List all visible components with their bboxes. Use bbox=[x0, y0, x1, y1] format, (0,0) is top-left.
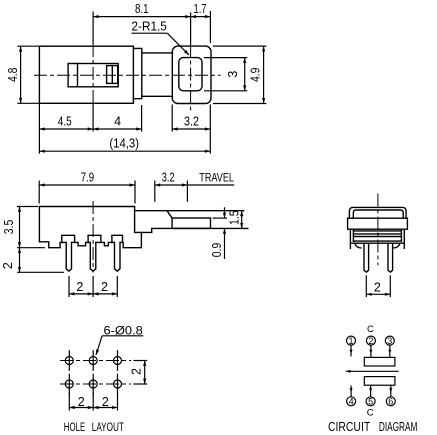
svg-text:TRAVEL: TRAVEL bbox=[199, 170, 234, 184]
stub pin 6 bbox=[389, 385, 392, 397]
svg-text:DIAGRAM: DIAGRAM bbox=[379, 420, 418, 434]
hole A3 bbox=[114, 350, 122, 371]
svg-text:1: 1 bbox=[348, 336, 353, 346]
flange bbox=[133, 48, 141, 98]
dimension 4.9 bbox=[213, 46, 266, 103]
pin 2 bbox=[91, 241, 96, 268]
svg-text:1.5: 1.5 bbox=[228, 210, 242, 225]
svg-text:4.8: 4.8 bbox=[6, 68, 20, 83]
svg-text:(14,3): (14,3) bbox=[109, 136, 139, 150]
hole B2 bbox=[89, 374, 97, 395]
terminal 4 bbox=[347, 397, 356, 407]
dimension 3.5 bbox=[2, 207, 45, 248]
body sides inner bbox=[352, 229, 354, 241]
lever arm diagonal bbox=[167, 211, 172, 218]
dimension 2 side bbox=[366, 275, 390, 297]
knob inner rect bbox=[107, 66, 118, 84]
hole B1 bbox=[65, 374, 73, 395]
cap outer bbox=[349, 207, 406, 218]
svg-text:2: 2 bbox=[102, 395, 109, 409]
lever arm top line bbox=[135, 210, 244, 212]
svg-text:HOLE: HOLE bbox=[64, 422, 86, 434]
dimension 1.7 bbox=[191, 2, 211, 43]
hole row centerline 1 bbox=[60, 360, 131, 362]
dimension 3 bbox=[204, 58, 247, 91]
svg-text:2: 2 bbox=[76, 280, 83, 294]
body sides outer bbox=[349, 229, 351, 248]
svg-text:6: 6 bbox=[388, 397, 393, 407]
bottom tab left bbox=[355, 244, 361, 248]
dimension 2 left bbox=[1, 248, 64, 273]
svg-text:LAYOUT: LAYOUT bbox=[92, 422, 124, 434]
pin boss 1 bbox=[62, 235, 75, 242]
side pin 2 bbox=[388, 243, 393, 272]
cap inner bbox=[353, 210, 403, 218]
dimension 3.2 TRAVEL bbox=[155, 170, 234, 202]
actuator outer bbox=[172, 46, 211, 103]
hole A1 bbox=[65, 350, 73, 371]
dimension 0.9 bbox=[210, 207, 227, 259]
pin 3 bbox=[115, 241, 120, 268]
neck top bbox=[142, 52, 173, 54]
body horizontals bbox=[353, 230, 401, 232]
label 2-R1.5 with leader bbox=[132, 19, 191, 56]
hole B3 bbox=[114, 374, 122, 395]
contact bar bottom bbox=[364, 377, 395, 386]
knob divider bbox=[77, 64, 79, 87]
neck bottom bbox=[142, 95, 173, 97]
slider knob bbox=[68, 64, 118, 87]
side view centerline bbox=[377, 194, 379, 266]
terminal 6 bbox=[386, 397, 395, 407]
svg-text:7.9: 7.9 bbox=[81, 171, 94, 185]
terminal 1 bbox=[347, 336, 356, 346]
svg-text:8.1: 8.1 bbox=[135, 2, 149, 16]
dimension 8.1 bbox=[93, 2, 191, 18]
svg-text:2: 2 bbox=[130, 368, 144, 375]
stub pin 5 bbox=[369, 385, 372, 397]
svg-text:1.7: 1.7 bbox=[194, 2, 207, 16]
dimension 7.9 bbox=[39, 171, 135, 204]
plastic base bbox=[350, 242, 404, 244]
svg-text:2: 2 bbox=[101, 280, 108, 294]
svg-text:3.2: 3.2 bbox=[162, 170, 175, 184]
horizontal centerline bbox=[34, 74, 221, 76]
dimension 2 hole right bbox=[130, 361, 148, 385]
svg-text:3.5: 3.5 bbox=[2, 220, 16, 235]
dimension 4.5 and 4 bbox=[39, 105, 141, 132]
svg-text:2: 2 bbox=[1, 262, 15, 269]
svg-text:4.5: 4.5 bbox=[58, 115, 72, 129]
side pin 1 bbox=[364, 243, 369, 272]
dimension 4.8 bbox=[6, 46, 39, 104]
stub pin 1 bbox=[350, 345, 353, 356]
front view body outline bbox=[39, 207, 141, 248]
bottom tab right bbox=[394, 244, 400, 248]
actuator inner bbox=[179, 58, 202, 91]
svg-text:CIRCUIT: CIRCUIT bbox=[328, 420, 370, 434]
svg-text:2: 2 bbox=[78, 395, 85, 409]
lever handle bbox=[172, 218, 210, 228]
svg-text:C: C bbox=[367, 407, 374, 418]
svg-text:3.2: 3.2 bbox=[184, 115, 199, 129]
top view body bbox=[39, 46, 133, 103]
svg-text:C: C bbox=[367, 324, 374, 335]
dimension 3.2 top view bbox=[172, 105, 210, 132]
svg-text:2: 2 bbox=[368, 336, 373, 346]
flange bbox=[348, 218, 408, 229]
slider line with arrow bbox=[346, 370, 399, 373]
dimension 2 2 holes bottom bbox=[69, 393, 117, 411]
svg-text:2-R1.5: 2-R1.5 bbox=[132, 19, 167, 33]
vertical centerline body bbox=[92, 12, 94, 45]
stub pin 3 bbox=[388, 345, 391, 357]
svg-text:4: 4 bbox=[349, 397, 354, 407]
arm step bbox=[141, 228, 151, 232]
contact bar top bbox=[364, 357, 395, 366]
stub pin 4 bbox=[350, 386, 353, 397]
dimension 2 2 pins bbox=[69, 276, 117, 297]
pin boss 2 bbox=[88, 235, 101, 242]
terminal 5 bbox=[366, 397, 375, 407]
pin boss 3 bbox=[112, 235, 123, 242]
vertical centerline actuator bbox=[190, 13, 192, 45]
dimension (14,3) bbox=[39, 103, 210, 153]
svg-text:2: 2 bbox=[374, 280, 381, 294]
svg-text:4.9: 4.9 bbox=[248, 68, 262, 83]
svg-text:5: 5 bbox=[368, 397, 373, 407]
front view centerline bbox=[92, 201, 94, 273]
terminal 3 bbox=[385, 336, 394, 346]
svg-text:3: 3 bbox=[226, 71, 240, 78]
hole row centerline 2 bbox=[60, 383, 131, 385]
svg-text:0.9: 0.9 bbox=[210, 243, 224, 258]
dimension 1.5 bbox=[228, 210, 244, 228]
svg-text:3: 3 bbox=[387, 336, 392, 346]
label 6-O0.8 with leader bbox=[94, 323, 143, 355]
terminal 2 bbox=[366, 336, 375, 346]
stub pin 2 bbox=[369, 345, 372, 357]
pin 1 bbox=[67, 241, 72, 268]
lever arm bottom line bbox=[152, 227, 248, 229]
svg-text:4: 4 bbox=[114, 115, 121, 129]
hole A2 bbox=[89, 350, 97, 371]
knob inner divider bbox=[111, 66, 113, 84]
